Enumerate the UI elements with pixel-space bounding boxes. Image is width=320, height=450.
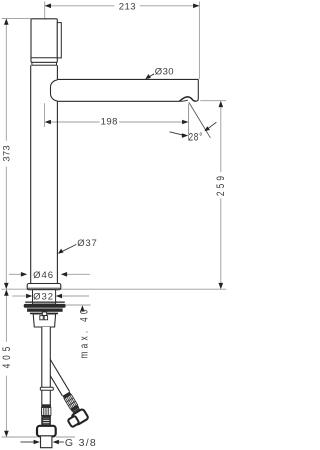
handle collar (57, 23, 61, 58)
dimension 213 line (45, 5, 115, 7)
extension line countertop (2, 288, 28, 290)
pipe D32 (33, 290, 56, 304)
thin seal band (25, 302, 65, 303)
dimension 373 arrow down (4, 283, 9, 289)
dimension 213 arrow right (193, 4, 199, 9)
label D32 left arrow (12, 295, 27, 297)
dimension 373 arrow up (4, 18, 9, 24)
escutcheon plate (27, 284, 61, 290)
shank block (33, 314, 55, 327)
extension line hose end (2, 436, 38, 438)
svg-text:Ø37: Ø37 (77, 238, 97, 249)
crimp band bottom diagonal (70, 405, 79, 412)
hose nipple left (40, 316, 43, 320)
dimension 259 arrow up (219, 101, 224, 107)
dimension 373 line (5, 21, 7, 141)
thread end face diagonal (68, 416, 80, 428)
extension line axis below spout (44, 103, 46, 127)
hose ferrule striped (43, 418, 50, 426)
dimension 213 arrow left (45, 4, 51, 9)
svg-text:213: 213 (119, 2, 136, 13)
dimension 405 arrow up (4, 289, 9, 295)
handle bottom cap line (32, 57, 57, 59)
braid section diagonal (64, 394, 78, 409)
label max40 arrow up (80, 305, 85, 311)
hose crimp band bottom (42, 415, 51, 417)
aerator wave (180, 97, 196, 101)
shank top line (30, 312, 58, 314)
spout (57, 79, 198, 101)
hose nipple right (44, 316, 47, 320)
svg-text:max. 40: max. 40 (78, 306, 90, 358)
handle joint band (32, 62, 57, 65)
crimp band top diagonal (62, 392, 71, 399)
extension line spout bottom right (200, 100, 226, 102)
label D46 left arrow (9, 273, 22, 275)
hose braid section (42, 408, 51, 416)
column body (31, 65, 58, 283)
label D32 right arrow (61, 295, 89, 297)
hose tube diagonal (42, 358, 70, 396)
faucet handle (31, 19, 57, 63)
dimension 405 arrow down (4, 431, 9, 437)
angle 28 leader arrow from upper right (208, 122, 216, 128)
label G38 right-pointing arrow (21, 441, 35, 443)
mounting washer band (24, 304, 66, 308)
hex nut diagonal (71, 409, 88, 426)
mounting nut band (27, 308, 63, 311)
label D46 right arrow (66, 273, 90, 275)
dimension 198 arrow right (182, 120, 188, 125)
extension line axis top (44, 2, 46, 24)
angle 28 horizontal leader arrow (170, 132, 183, 135)
svg-text:Ø30: Ø30 (155, 66, 174, 77)
hex nut vertical hose (37, 426, 56, 437)
svg-text:Ø46: Ø46 (33, 270, 54, 281)
label D30 leader (146, 74, 154, 79)
svg-text:259: 259 (215, 173, 227, 196)
hose collar ring (40, 387, 53, 390)
hose crimp band top (42, 404, 51, 407)
hose nipple small tab (42, 312, 46, 315)
thread G38 vertical (41, 436, 52, 447)
svg-text:Ø32: Ø32 (33, 292, 54, 303)
vertical supply hose (42, 327, 51, 426)
label G38 left-pointing arrow (53, 440, 59, 445)
extension line max40 top (63, 304, 91, 306)
label D37 leader (59, 244, 77, 253)
dimension 198 arrow left (45, 120, 51, 125)
svg-text:28°: 28° (189, 132, 204, 144)
diagonal supply hose (behind) (35, 356, 89, 428)
dimension 259 arrow down (219, 283, 224, 289)
dimension 198 line (47, 121, 100, 123)
extension line aerator vertical (188, 104, 190, 141)
extension line handle top (left) (2, 17, 31, 19)
neck diagonal (73, 408, 80, 414)
dimension 259 line (220, 103, 222, 172)
angle 28 deg ray (189, 102, 211, 138)
svg-text:373: 373 (1, 145, 12, 161)
svg-text:198: 198 (101, 117, 118, 128)
extension line spout tip (198, 2, 200, 80)
dimension 405 line (5, 291, 7, 342)
spout left bulge (51, 80, 58, 101)
svg-text:G 3/8: G 3/8 (65, 437, 97, 449)
svg-text:405: 405 (1, 343, 13, 369)
